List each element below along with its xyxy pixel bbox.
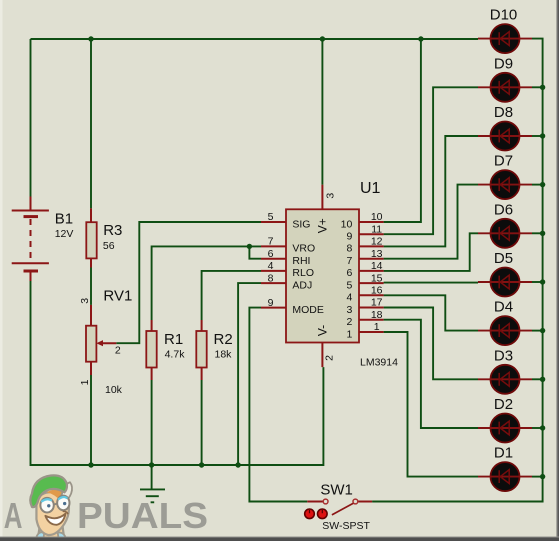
svg-text:R2: R2	[214, 331, 233, 348]
svg-text:10: 10	[371, 211, 383, 223]
svg-text:U1: U1	[360, 180, 381, 197]
svg-text:D2: D2	[494, 396, 513, 413]
svg-text:V-: V-	[315, 325, 329, 336]
svg-text:56: 56	[103, 240, 115, 252]
svg-text:6: 6	[346, 267, 352, 279]
svg-text:R3: R3	[103, 222, 122, 239]
svg-text:RV1: RV1	[103, 287, 132, 304]
svg-text:8: 8	[268, 272, 274, 284]
svg-text:R1: R1	[164, 331, 183, 348]
svg-text:11: 11	[371, 223, 382, 235]
svg-text:A: A	[4, 495, 23, 536]
svg-text:18: 18	[371, 309, 383, 321]
svg-text:5: 5	[268, 211, 274, 223]
svg-text:V+: V+	[315, 218, 329, 233]
svg-text:MODE: MODE	[292, 304, 324, 316]
svg-text:9: 9	[268, 297, 274, 309]
svg-text:10k: 10k	[105, 384, 123, 396]
svg-text:6: 6	[268, 248, 274, 260]
svg-text:17: 17	[371, 297, 383, 309]
svg-text:4.7k: 4.7k	[165, 349, 186, 361]
svg-text:ADJ: ADJ	[292, 279, 312, 291]
svg-text:D1: D1	[494, 445, 513, 462]
svg-text:D10: D10	[490, 7, 518, 24]
svg-text:13: 13	[371, 248, 383, 260]
svg-text:3: 3	[79, 298, 91, 304]
svg-text:4: 4	[346, 292, 352, 304]
svg-text:LM3914: LM3914	[360, 357, 398, 369]
svg-text:7: 7	[346, 255, 352, 267]
svg-text:2: 2	[346, 316, 352, 328]
svg-text:3: 3	[346, 304, 352, 316]
svg-text:D5: D5	[494, 250, 513, 267]
svg-text:5: 5	[346, 279, 352, 291]
svg-text:PUALS: PUALS	[77, 495, 208, 536]
svg-text:12V: 12V	[55, 228, 74, 240]
svg-text:RHI: RHI	[292, 255, 310, 267]
svg-text:9: 9	[346, 231, 352, 243]
svg-text:SIG: SIG	[292, 218, 310, 230]
svg-text:3: 3	[325, 193, 337, 199]
svg-text:D7: D7	[494, 153, 513, 170]
svg-text:16: 16	[371, 285, 383, 297]
svg-text:1: 1	[374, 321, 380, 333]
svg-text:8: 8	[346, 243, 352, 255]
svg-text:10: 10	[341, 218, 353, 230]
svg-text:D9: D9	[494, 55, 513, 72]
svg-text:D4: D4	[494, 299, 513, 316]
svg-text:D8: D8	[494, 104, 513, 121]
svg-text:D3: D3	[494, 347, 513, 364]
svg-text:18k: 18k	[215, 349, 233, 361]
svg-text:B1: B1	[55, 210, 73, 227]
svg-text:14: 14	[371, 260, 383, 272]
svg-text:4: 4	[268, 260, 274, 272]
svg-text:SW1: SW1	[320, 481, 353, 498]
svg-text:7: 7	[268, 236, 274, 248]
svg-text:1: 1	[346, 328, 352, 340]
svg-text:2: 2	[323, 355, 335, 361]
svg-text:15: 15	[371, 272, 383, 284]
svg-text:2: 2	[115, 344, 121, 356]
svg-text:VRO: VRO	[292, 243, 315, 255]
svg-text:12: 12	[371, 236, 383, 248]
svg-text:SW-SPST: SW-SPST	[322, 520, 370, 532]
svg-text:1: 1	[79, 379, 91, 385]
svg-text:RLO: RLO	[292, 267, 314, 279]
svg-text:D6: D6	[494, 201, 513, 218]
